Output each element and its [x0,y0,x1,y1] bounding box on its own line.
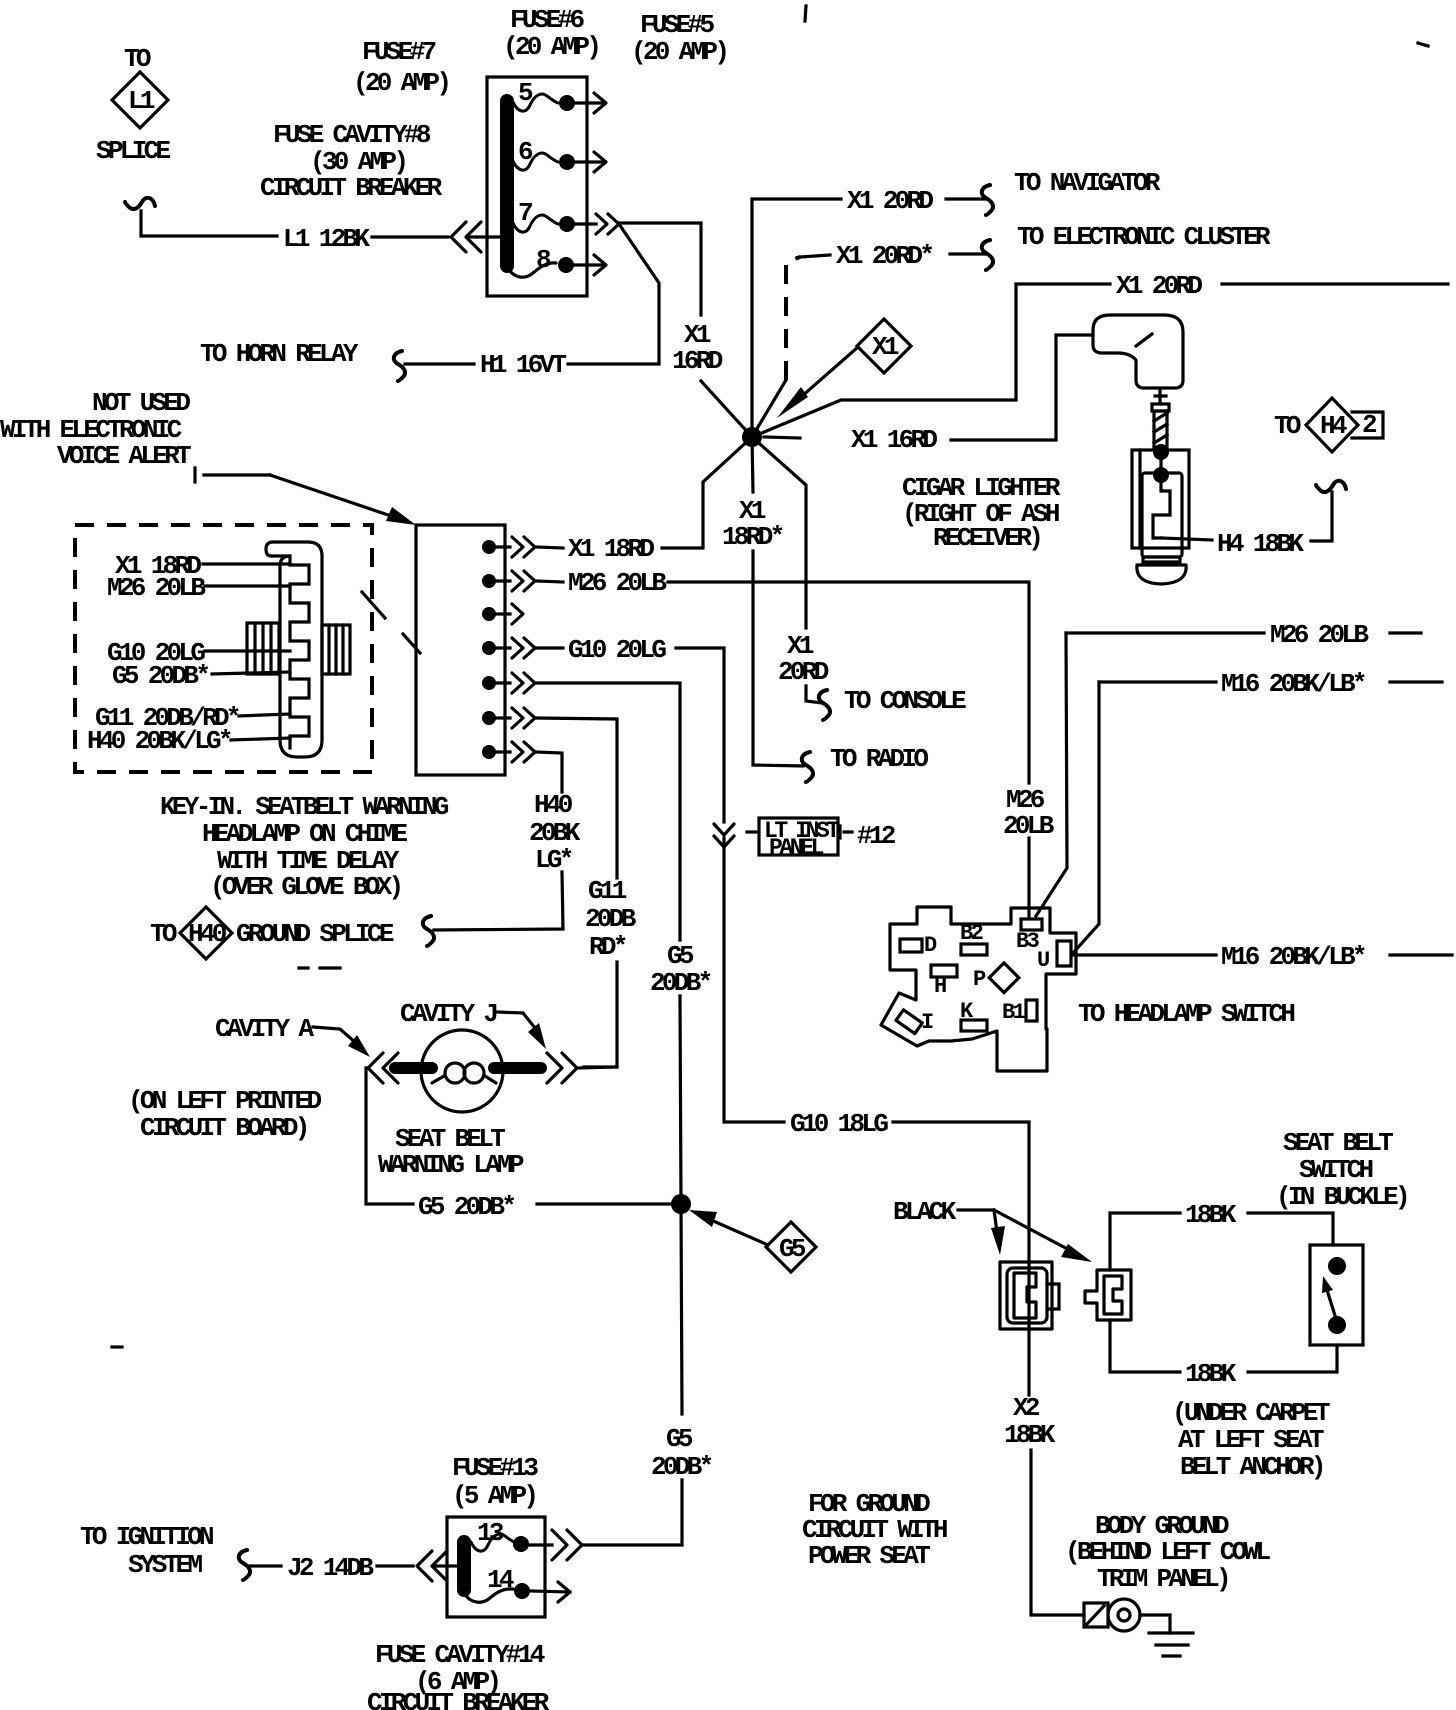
row2 double chevron [512,571,535,591]
arrow from X1 diamond to node [793,347,858,404]
wire H4 18BK from element [1161,538,1212,540]
wire H4 18BK to hook [1311,492,1332,541]
cavity J leader arrow [497,1012,535,1028]
svg-text:CIRCUIT BOARD): CIRCUIT BOARD) [140,1113,307,1143]
pin P diamond [989,963,1019,993]
fuse 13 terminal dot [513,1536,529,1552]
pin D rect [900,939,922,952]
svg-text:RD*: RD* [589,932,626,962]
LT INST PANEL box [759,818,838,855]
sections get inserted below [96,5,1428,1347]
wire M26 20LB right branch [1066,631,1264,634]
fuse block bus bar [500,101,514,266]
socket terminal dot upper [1153,444,1169,460]
svg-text:M16 20BK/LB*: M16 20BK/LB* [1221,669,1365,699]
svg-text:VOICE ALERT: VOICE ALERT [57,441,191,471]
wire H1 16VT left segment [405,362,474,365]
male connector body [1085,1270,1131,1320]
wire X1 20RD to right edge [1222,282,1448,285]
H40 splice diamond [180,907,232,959]
svg-text:H1 16VT: H1 16VT [480,350,566,380]
wire J2 14DB left [250,1564,281,1567]
svg-text:H40: H40 [188,919,227,949]
double chevron into fuse cavity 8 [451,222,481,252]
module pin dot row1 [482,540,496,554]
svg-text:SYSTEM: SYSTEM [128,1550,203,1580]
svg-text:TO ELECTRONIC CLUSTER: TO ELECTRONIC CLUSTER [1017,222,1271,252]
svg-text:CAVITY J: CAVITY J [400,999,496,1029]
wire G11 right and down [536,718,617,878]
arrow from G5 diamond to junction [711,1220,768,1245]
wire M16 upper down to U pin [1073,682,1099,953]
arrowhead at module [386,507,416,525]
junction dot G5 [671,1194,691,1214]
svg-text:GROUND SPLICE: GROUND SPLICE [236,919,394,949]
hook at ground splice wire [423,916,434,946]
hook to electronic cluster [982,240,993,270]
wire X1 18RD* to radio [753,551,803,766]
splice node X1 [742,427,762,447]
module pin dot row7 [482,745,496,759]
svg-text:18BK: 18BK [1004,1420,1056,1450]
svg-text:I: I [921,1010,933,1035]
element stem hatched body [1154,411,1167,449]
svg-text:X1 20RD*: X1 20RD* [836,241,932,271]
dash marks under splice [299,966,340,969]
svg-text:X2: X2 [1013,1393,1040,1423]
svg-text:FUSE#6: FUSE#6 [510,5,585,35]
svg-text:WARNING LAMP: WARNING LAMP [378,1150,524,1180]
svg-text:(ON LEFT PRINTED: (ON LEFT PRINTED [128,1086,322,1116]
fuse 14 output arrow [530,1591,570,1592]
svg-text:X1 18RD: X1 18RD [568,534,654,564]
connector left rib block [247,623,279,674]
socket inner wall left [1138,450,1141,548]
wire X1 16RD diagonal to node [701,381,752,437]
svg-text:20DB*: 20DB* [650,968,711,998]
female connector cavity profile [1014,1273,1036,1318]
wire X2 18BK below female connector [1027,1329,1030,1395]
row4 double chevron [512,638,535,658]
row6 double chevron [512,708,535,728]
svg-text:(20 AMP): (20 AMP) [631,37,726,67]
row7 double chevron [512,742,535,762]
svg-text:L1 12BK: L1 12BK [283,224,370,254]
leader line from label [195,468,270,482]
svg-text:TO HEADLAMP SWITCH: TO HEADLAMP SWITCH [1078,999,1294,1029]
stray mark top right [1418,43,1428,46]
svg-text:FUSE CAVITY#8: FUSE CAVITY#8 [273,120,431,150]
hook to radio [802,752,813,782]
LT INST PANEL leader dash [747,830,757,833]
wire M26 20LB long to headlamp switch [668,582,1029,783]
hook at ignition wire [239,1550,250,1580]
pin U rect [1057,941,1071,966]
fuse 8 terminal dot [558,257,574,273]
svg-text:FUSE CAVITY#14: FUSE CAVITY#14 [375,1640,545,1670]
wire M16 20BK/LB* lower from U pin [1073,953,1216,956]
svg-text:TO: TO [124,44,151,74]
circuit number box 2 [1352,412,1383,438]
svg-text:18BK: 18BK [1185,1200,1237,1230]
svg-text:G11: G11 [588,876,627,906]
wire to fuse box [372,235,448,238]
wire X1 16RD to cigar lighter [951,335,1092,440]
svg-text:X1 20RD: X1 20RD [847,186,933,216]
wire fuse7 to X1 16RD vertical [619,223,701,315]
svg-text:G5: G5 [667,941,694,971]
row1 wire to label [536,547,563,548]
connector hook at L1 splice [125,198,155,209]
wire from cavity J to G11 riser [579,1067,617,1068]
pin B3 rect [1021,919,1042,930]
svg-text:B1: B1 [1002,1000,1026,1025]
socket center lead [1159,452,1162,475]
fuse 6 terminal dot [559,154,575,170]
stray dash left of FOR GROUND [112,1345,122,1348]
svg-text:G5 20DB*: G5 20DB* [112,661,208,691]
svg-text:U: U [1037,948,1049,973]
cavity A double chevron [368,1053,398,1083]
socket flange [1143,557,1180,562]
svg-text:(IN BUCKLE): (IN BUCKLE) [1276,1182,1407,1212]
arrow to male connector [994,1210,1075,1253]
wire H1 16VT to fuse 7 [568,224,659,364]
wire G10 continue down [724,838,784,1122]
wire H40 continue down to ground splice [434,872,563,930]
switch contact lower dot [1328,1316,1346,1334]
svg-text:M26 20LB: M26 20LB [568,568,667,598]
wire X2 to body ground [1031,1450,1084,1615]
fuse 14 element [466,1589,513,1602]
cavity A leader arrow [313,1027,356,1043]
module pin dot row4 [482,641,496,655]
svg-text:POWER SEAT: POWER SEAT [808,1541,930,1571]
svg-text:G5 20DB*: G5 20DB* [418,1192,514,1222]
X1 reference diamond [857,319,911,373]
wire G10 20LG right and down [676,648,724,822]
row5 double chevron [512,673,535,693]
chime module box [416,525,505,775]
wire from cavity A down [366,1068,413,1204]
svg-text:(BEHIND LEFT COWL: (BEHIND LEFT COWL [1065,1537,1270,1567]
knob inner mark [1136,334,1152,346]
wire G5 into fuse 13 chevron [552,1530,582,1560]
H4 splice diamond [1306,398,1358,452]
ground symbol [1149,1633,1193,1656]
svg-text:TO HORN RELAY: TO HORN RELAY [200,339,359,369]
wire G5 to fuse 13 [584,1480,682,1545]
arrow to female connector [994,1210,997,1232]
hook to navigator [982,185,993,215]
hook to console [819,690,830,720]
fuse 8 output arrow [574,263,605,266]
wire G11 continue down to lamp [584,962,617,1067]
svg-text:H40 20BK/LG*: H40 20BK/LG* [87,726,231,756]
svg-text:G10 18LG: G10 18LG [790,1109,888,1139]
svg-text:KEY-IN. SEATBELT WARNING: KEY-IN. SEATBELT WARNING [160,792,449,822]
svg-text:(5 AMP): (5 AMP) [452,1481,535,1511]
svg-text:X1 20RD: X1 20RD [1116,271,1202,301]
wire to ground [1140,1615,1170,1633]
wire 18BK lower [1110,1320,1180,1372]
svg-text:H4: H4 [1320,411,1347,441]
svg-text:LG*: LG* [535,845,572,875]
svg-text:PANEL: PANEL [769,835,824,861]
wire X1 18RD down-left from node to module row1 [662,437,752,548]
svg-text:FUSE#13: FUSE#13 [452,1453,538,1483]
svg-text:X1 16RD: X1 16RD [851,425,937,455]
wire through female connector [1027,1262,1030,1329]
svg-text:(UNDER CARPET: (UNDER CARPET [1172,1398,1330,1428]
connector arm rotated rect I [896,1010,922,1034]
wire G5 continue down to junction [680,996,681,1204]
lamp terminal bar cavity J [494,1062,541,1074]
lamp number label #12 [840,826,852,838]
row3 single chevron [512,604,523,624]
svg-text:BLACK: BLACK [893,1197,957,1227]
wire X1 20RD up to navigator [752,199,841,437]
lamp filament coil [432,1076,444,1083]
svg-text:G5: G5 [666,1424,693,1454]
downward chevron on G10 wire [714,824,734,847]
pin H rect [931,965,957,977]
svg-text:CIRCUIT BREAKER: CIRCUIT BREAKER [367,1688,550,1710]
row1 double chevron [512,537,535,557]
svg-text:SWITCH: SWITCH [1299,1155,1373,1185]
socket inner housing [1142,473,1182,557]
wire G10 18LG to black connector [893,1122,1029,1262]
svg-text:#12: #12 [857,821,896,851]
fuse 5 element [513,94,558,111]
module pin dot row3 [482,607,496,621]
wire to junction dot [537,1202,681,1205]
hook at H4 wire [1316,481,1346,492]
wire X1 20RD top right from node [752,284,1110,437]
wire M26 into B3 [1027,838,1030,917]
dashed wire X1 20RD* to electronic cluster [752,380,786,437]
lamp terminal bar cavity A [395,1062,432,1074]
svg-text:L1: L1 [128,86,155,116]
fuse 13 element [471,1534,516,1551]
arrowhead at node [777,387,808,418]
fuse 5 output arrow [574,101,605,104]
fuse 5 terminal dot [559,95,575,111]
leader from BLACK [958,1208,994,1211]
wire L1 12BK vertical from splice [141,211,277,236]
ground ring terminal [1108,1599,1140,1631]
wire X1 20RD down-right from node [752,437,806,628]
wire H40 right and down [536,752,562,792]
male connector inner profile [1104,1276,1122,1314]
wire X1 20RD to console [806,686,822,703]
fuse 14 terminal dot [514,1583,530,1599]
svg-text:18RD*: 18RD* [722,522,783,552]
svg-text:CAVITY A: CAVITY A [215,1014,314,1044]
fuse block box 13/14 [447,1517,545,1617]
wire from fuse 13 dot [523,1543,552,1546]
cavity J double chevron [547,1053,577,1083]
svg-text:CIRCUIT BREAKER: CIRCUIT BREAKER [260,173,443,203]
svg-text:G5: G5 [779,1234,806,1264]
svg-text:(20 AMP): (20 AMP) [503,32,598,62]
svg-text:NOT USED: NOT USED [92,388,190,418]
svg-text:M16 20BK/LB*: M16 20BK/LB* [1221,942,1365,972]
svg-text:M26 20LB: M26 20LB [107,573,206,603]
svg-text:X1: X1 [872,332,899,362]
svg-text:M26 20LB: M26 20LB [1270,620,1369,650]
svg-text:J2 14DB: J2 14DB [287,1553,374,1583]
stray mark top [805,6,806,21]
fuse 7 double chevron out [596,214,619,234]
svg-text:H40: H40 [534,790,573,820]
svg-text:TO RADIO: TO RADIO [830,744,928,774]
svg-text:TO IGNITION: TO IGNITION [80,1522,213,1552]
splice L1 diamond [112,72,168,128]
svg-text:HEADLAMP ON CHIME: HEADLAMP ON CHIME [202,819,407,849]
svg-text:BELT ANCHOR): BELT ANCHOR) [1180,1452,1323,1482]
svg-text:18BK: 18BK [1185,1359,1237,1389]
fuse 7 terminal dot [559,216,575,232]
svg-text:SPLICE: SPLICE [96,136,171,166]
svg-text:20DB*: 20DB* [651,1452,712,1482]
svg-text:B2: B2 [960,921,983,946]
leader diagonal to module [270,475,397,518]
break marks inside box [362,592,420,653]
ground terminal hatched block [1084,1603,1108,1627]
svg-text:TO CONSOLE: TO CONSOLE [844,686,966,716]
heating element zigzag [1153,475,1170,538]
svg-text:20DB: 20DB [585,904,637,934]
female connector side tab [1047,1284,1059,1309]
svg-text:TO: TO [1274,411,1301,441]
svg-text:H4 18BK: H4 18BK [1217,529,1304,559]
pin K rect [961,1020,987,1031]
female connector inner [1007,1268,1047,1323]
seat belt warning lamp circle [421,1030,503,1112]
row2 wire to label [536,581,563,582]
fuse 7 element [513,215,558,232]
socket outer shell [1132,450,1189,548]
input double chevron at fuse 13 block [417,1551,447,1581]
svg-text:TRIM PANEL): TRIM PANEL) [1097,1564,1228,1594]
pin B2 rect [961,944,987,955]
svg-text:(OVER GLOVE BOX): (OVER GLOVE BOX) [210,872,401,902]
G5 reference diamond [766,1222,816,1272]
module pin dot row6 [482,711,496,725]
wire 18BK upper to switch [1110,1213,1180,1270]
fuse 8 element from bar bottom [509,263,556,277]
fuse 7 output wire [574,222,596,225]
svg-text:16RD: 16RD [672,346,723,376]
socket dome bottom [1137,565,1186,584]
socket terminal dot lower [1153,467,1169,483]
switch blade arrow [1327,1290,1337,1322]
wire to navigator hook [946,197,987,200]
female connector outer [1000,1262,1052,1329]
cigar lighter knob [1093,315,1183,388]
wire M16 20BK/LB* upper branch [1099,680,1216,683]
wire into bus bar [467,235,504,238]
fuse 6 element [513,153,558,170]
svg-text:H: H [934,974,946,999]
wire G5 20DB* right and down [536,683,680,940]
module pin dot row5 [482,676,496,690]
svg-text:AT LEFT SEAT: AT LEFT SEAT [1178,1425,1324,1455]
svg-text:FUSE#7: FUSE#7 [362,37,436,67]
element stem cap [1152,404,1169,411]
switch contact upper dot [1328,1257,1346,1275]
seat belt switch box [1310,1245,1363,1345]
svg-text:FUSE#5: FUSE#5 [640,10,715,40]
wire M26 right branch down to B3 [1036,633,1067,916]
svg-text:TO: TO [150,919,177,949]
svg-text:20BK: 20BK [529,818,581,848]
row4 wire to label [536,646,563,649]
svg-text:G10 20LG: G10 20LG [568,635,666,665]
module pin dot row2 [482,574,496,588]
horn relay hook [394,351,405,381]
wire J2 to fuse block [377,1564,413,1567]
pin B1 rect [1026,1000,1037,1021]
connector body (over glove box module connector) [266,542,322,757]
svg-text:SEAT BELT: SEAT BELT [1283,1128,1393,1158]
svg-text:TO NAVIGATOR: TO NAVIGATOR [1014,168,1161,198]
fuse 6 output arrow [574,160,605,163]
wire G5 20DB* down from junction [681,1204,682,1414]
lighter element stem tip [1155,390,1166,404]
svg-text:(20 AMP): (20 AMP) [353,68,448,98]
fuse block bus bar 13 [457,1542,471,1590]
dashed boundary box [75,525,372,772]
wire X1 18RD* down from node [752,437,753,492]
wire into bus bar 13 [434,1564,462,1567]
svg-text:RECEIVER): RECEIVER) [933,523,1040,553]
connector right rib block [322,625,350,674]
fuse block box top [487,77,587,296]
connector teeth [290,556,309,748]
svg-text:20RD: 20RD [778,657,829,687]
wire X1 16RD right from node [764,437,800,438]
headlamp switch connector outline [881,907,1076,1071]
